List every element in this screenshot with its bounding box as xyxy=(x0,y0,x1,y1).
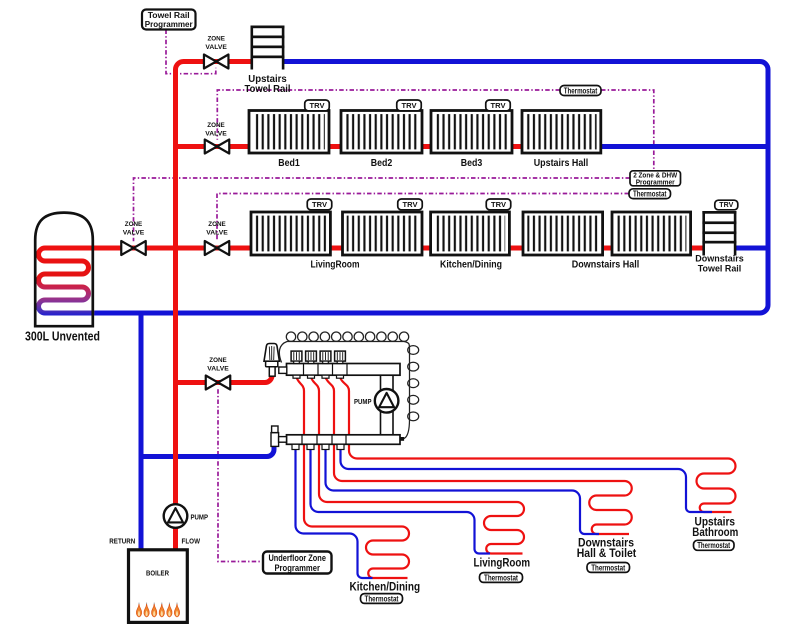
pipe red link livingroom-kitchen xyxy=(421,246,432,251)
box Thermostat kitchen xyxy=(361,594,403,604)
svg-text:TRV: TRV xyxy=(310,101,325,110)
pipe underfloor red loop Upstairs Bathroom xyxy=(340,377,736,512)
pipe red flow branch to underfloor manifold xyxy=(176,371,273,383)
radiator Bed3 xyxy=(431,111,512,154)
svg-text:VALVE: VALVE xyxy=(205,44,227,51)
svg-text:PUMP: PUMP xyxy=(354,397,372,406)
wire downstairs thermostat to downstairs zone valve xyxy=(217,194,629,242)
svg-text:Hall & Toilet: Hall & Toilet xyxy=(577,548,637,560)
box Underfloor Zone Programmer xyxy=(263,552,332,574)
radiator Upstairs Hall xyxy=(522,111,601,154)
box Thermostat livingroom xyxy=(480,573,523,583)
pipe red link kitchen-downstairshall xyxy=(509,246,525,251)
manifold flow port nubs xyxy=(293,375,344,378)
pipe red link to downstairs towel rail xyxy=(690,246,704,251)
svg-text:Thermostat: Thermostat xyxy=(484,573,518,582)
manifold left coupler xyxy=(279,367,287,373)
svg-text:VALVE: VALVE xyxy=(123,230,145,237)
zone valve bedrooms xyxy=(205,140,230,154)
pipe red link Bed3-UpstairsHall xyxy=(511,144,523,149)
radiator Downstairs Hall B xyxy=(612,212,691,255)
cylinder heating coil xyxy=(39,248,121,313)
svg-text:Thermostat: Thermostat xyxy=(564,86,598,95)
svg-text:Towel Rail: Towel Rail xyxy=(245,84,291,95)
svg-text:Upstairs Hall: Upstairs Hall xyxy=(534,157,589,169)
TRV LivingRoom A xyxy=(307,199,332,210)
pipe underfloor blue return LivingRoom xyxy=(311,450,491,554)
radiator LivingRoom A xyxy=(251,212,330,255)
box Thermostat bathroom xyxy=(694,540,735,550)
wire towel-rail programmer to upstairs towel zone valve xyxy=(166,30,216,74)
pipe red link Bed2-Bed3 xyxy=(421,144,432,149)
svg-text:TRV: TRV xyxy=(491,101,506,110)
TRV Bed3 xyxy=(486,100,511,111)
svg-text:ZONE: ZONE xyxy=(208,221,226,228)
pipe underfloor blue return Kitchen/Dining xyxy=(296,450,373,579)
cylinder 300L unvented outline xyxy=(35,213,93,327)
radiator Kitchen/Dining xyxy=(431,212,510,255)
radiator Bed1 xyxy=(249,111,329,154)
pipe underfloor red loop LivingRoom xyxy=(311,377,524,554)
box Thermostat downstairs loop xyxy=(587,563,630,573)
svg-text:VALVE: VALVE xyxy=(205,131,227,138)
svg-text:Underfloor Zone: Underfloor Zone xyxy=(268,553,326,563)
svg-text:Programmer: Programmer xyxy=(145,19,194,29)
pipe blue return from downstairs towel rail xyxy=(736,246,768,251)
pipe blue return trunk to boiler xyxy=(139,311,144,551)
pipe blue return from upstairs hall radiators xyxy=(601,144,769,149)
boiler xyxy=(129,550,188,623)
pipe red flow branch to bedroom radiators xyxy=(176,144,250,149)
manifold flow bar (top) xyxy=(287,364,405,441)
manifold thermostatic valve head xyxy=(264,344,279,377)
manifold actuator valve 2 xyxy=(306,351,317,363)
pipe underfloor red loop Kitchen/Dining xyxy=(297,377,410,578)
svg-text:Bed1: Bed1 xyxy=(278,157,300,169)
manifold actuator valve 1 xyxy=(291,351,302,363)
svg-text:ZONE: ZONE xyxy=(207,36,225,43)
pipe red link Bed1-Bed2 xyxy=(328,144,342,149)
radiator Bed2 xyxy=(341,111,422,154)
svg-text:TRV: TRV xyxy=(403,200,418,209)
zone valve DHW cylinder xyxy=(121,241,146,255)
svg-text:ZONE: ZONE xyxy=(209,357,227,364)
svg-text:Programmer: Programmer xyxy=(636,178,675,186)
pipe blue return top bus and right riser and bottom bus xyxy=(88,62,768,314)
manifold return port nubs xyxy=(292,444,344,449)
manifold return inlet valve xyxy=(271,426,287,446)
radiator Downstairs Hall A xyxy=(523,212,603,255)
manifold actuator valve 3 xyxy=(320,351,331,363)
pump P1 boiler xyxy=(164,504,188,528)
svg-text:Programmer: Programmer xyxy=(274,563,320,573)
svg-text:BOILER: BOILER xyxy=(146,569,170,578)
upstairs towel rail radiator xyxy=(251,26,285,70)
svg-text:TRV: TRV xyxy=(312,200,327,209)
svg-text:Kitchen/Dining: Kitchen/Dining xyxy=(350,582,421,594)
svg-text:Thermostat: Thermostat xyxy=(591,563,625,572)
TRV Bed2 xyxy=(397,100,422,111)
svg-text:LivingRoom: LivingRoom xyxy=(474,558,531,570)
TRV Kitchen/Dining xyxy=(486,199,511,210)
zone valve underfloor xyxy=(206,376,231,390)
manifold return bar (bottom) xyxy=(287,435,401,445)
pump P2 underfloor xyxy=(375,389,399,413)
svg-text:Bed3: Bed3 xyxy=(461,157,483,169)
svg-text:TRV: TRV xyxy=(491,200,506,209)
svg-text:Thermostat: Thermostat xyxy=(633,189,667,198)
svg-text:LivingRoom: LivingRoom xyxy=(311,259,360,271)
pipe blue underfloor return to manifold xyxy=(141,444,274,457)
wire upstairs thermostat to bedroom zone valve xyxy=(217,90,560,140)
boiler flames xyxy=(136,603,179,617)
manifold pump riser pipe xyxy=(381,373,394,435)
zone valve upstairs towel rail xyxy=(204,55,229,69)
svg-text:Towel Rail: Towel Rail xyxy=(698,264,742,275)
svg-text:ZONE: ZONE xyxy=(207,122,225,129)
pipe red link livingroom radiators xyxy=(330,246,344,251)
svg-text:Kitchen/Dining: Kitchen/Dining xyxy=(440,259,502,271)
manifold actuator valve 4 xyxy=(335,351,346,363)
svg-text:VALVE: VALVE xyxy=(207,366,229,373)
downstairs towel rail radiator xyxy=(702,211,736,256)
manifold flexible pipe coil decoration xyxy=(279,332,418,439)
svg-text:Bathroom: Bathroom xyxy=(692,527,738,539)
pipe underfloor blue return Downstairs Hall xyxy=(326,450,600,535)
wire upstairs thermostat to 2-zone programmer xyxy=(601,90,654,171)
svg-text:VALVE: VALVE xyxy=(206,230,228,237)
svg-text:Thermostat: Thermostat xyxy=(697,541,730,550)
pipe red flow cylinder and downstairs radiators xyxy=(91,246,252,251)
pipe red link downstairshall radiators xyxy=(602,246,614,251)
svg-text:300L Unvented: 300L Unvented xyxy=(25,329,100,344)
svg-text:TRV: TRV xyxy=(402,101,417,110)
zone valve downstairs radiators xyxy=(205,241,230,255)
svg-text:ZONE: ZONE xyxy=(125,221,143,228)
svg-text:RETURN: RETURN xyxy=(109,537,135,546)
box 2 Zone and DHW Programmer xyxy=(630,171,681,187)
svg-text:PUMP: PUMP xyxy=(191,512,209,521)
TRV Downstairs Towel Rail xyxy=(715,200,738,210)
box Towel Rail Programmer xyxy=(142,10,196,30)
svg-text:Downstairs Hall: Downstairs Hall xyxy=(572,259,640,271)
svg-text:Bed2: Bed2 xyxy=(371,157,393,169)
svg-text:Thermostat: Thermostat xyxy=(365,594,399,603)
svg-text:TRV: TRV xyxy=(719,202,733,209)
TRV LivingRoom B xyxy=(398,199,423,210)
box Thermostat upstairs hall xyxy=(560,86,601,96)
radiator LivingRoom B xyxy=(343,212,423,255)
TRV Bed1 xyxy=(305,100,330,111)
pipe underfloor blue return Upstairs Bathroom xyxy=(341,450,713,513)
box Thermostat downstairs hall xyxy=(629,189,671,199)
wire 2-zone programmer to DHW zone valve xyxy=(134,178,631,241)
pipe red flow trunk boiler to upstairs towel rail xyxy=(176,62,252,552)
svg-text:FLOW: FLOW xyxy=(182,537,201,546)
wire underfloor zone valve to underfloor programmer xyxy=(218,389,263,561)
pipe underfloor red loop Downstairs Hall xyxy=(326,377,632,534)
